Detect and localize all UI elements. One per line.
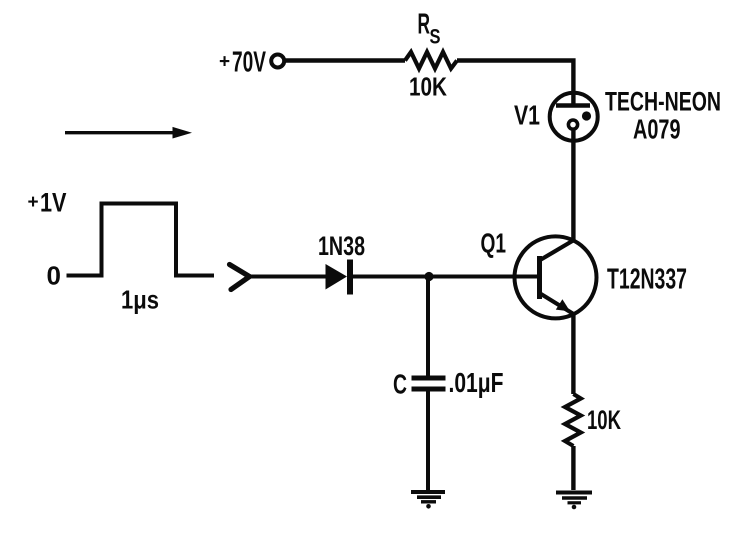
wire: diode to node: [352, 275, 429, 279]
svg-text:S: S: [430, 26, 441, 49]
label Q1: [481, 228, 507, 259]
ground (emitter): [556, 493, 592, 510]
wire: resistor to ground: [571, 446, 575, 490]
neon lamp V1: [550, 92, 598, 141]
label Rs: [418, 9, 441, 49]
svg-text:TECH-NEON: TECH-NEON: [605, 87, 721, 117]
svg-text:.01μF: .01μF: [449, 367, 504, 398]
capacitor C .01uF: [412, 378, 446, 389]
label +1V: [28, 188, 67, 218]
transistor Q1 T12N337: [515, 236, 597, 318]
svg-text:1μs: 1μs: [121, 285, 159, 315]
signal direction arrow: [65, 127, 192, 139]
input arrowhead chevron: [230, 265, 250, 290]
label T12N337: [607, 264, 687, 296]
wire: emitter to resistor 10K: [571, 314, 575, 394]
label 10K (Rs value): [409, 72, 447, 102]
wire: node to transistor base: [429, 275, 540, 279]
svg-text:1V: 1V: [40, 188, 67, 218]
label TECH-NEON: [605, 87, 721, 117]
svg-text:R: R: [418, 9, 431, 41]
wire: resistor Rs to corner and down to neon: [457, 61, 573, 93]
resistor Rs 10K: [405, 52, 457, 69]
label +70V: [219, 47, 266, 79]
svg-text:1N38: 1N38: [318, 231, 365, 261]
svg-text:10K: 10K: [409, 72, 447, 102]
svg-text:+: +: [219, 52, 230, 73]
svg-text:10K: 10K: [587, 405, 621, 435]
label 1us: [121, 285, 159, 315]
wire: terminal to resistor Rs: [284, 58, 405, 62]
label 0: [47, 261, 61, 291]
terminal +70V: [271, 55, 284, 68]
label C: [393, 368, 407, 399]
ground (capacitor): [411, 492, 445, 509]
svg-text:70V: 70V: [232, 47, 266, 79]
resistor RE 10K (emitter): [565, 394, 581, 446]
svg-text:A079: A079: [633, 113, 681, 144]
label .01uF: [449, 367, 504, 398]
label 10K (emitter value): [587, 405, 621, 435]
svg-text:V1: V1: [514, 100, 540, 131]
svg-text:T12N337: T12N337: [607, 264, 687, 296]
svg-text:0: 0: [47, 261, 61, 291]
wire: capacitor to ground: [426, 389, 430, 491]
svg-text:+: +: [28, 192, 39, 213]
wire: node down to capacitor: [426, 277, 430, 377]
diode CR1 1N38: [326, 260, 351, 295]
input pulse waveform: [67, 204, 215, 276]
wire: neon to transistor collector: [571, 141, 575, 240]
svg-text:C: C: [393, 368, 407, 399]
svg-text:Q1: Q1: [481, 228, 507, 259]
label 1N38: [318, 231, 365, 261]
label V1: [514, 100, 540, 131]
wire: input to diode: [249, 275, 326, 279]
label A079: [633, 113, 681, 144]
node junction dot: [424, 272, 433, 281]
